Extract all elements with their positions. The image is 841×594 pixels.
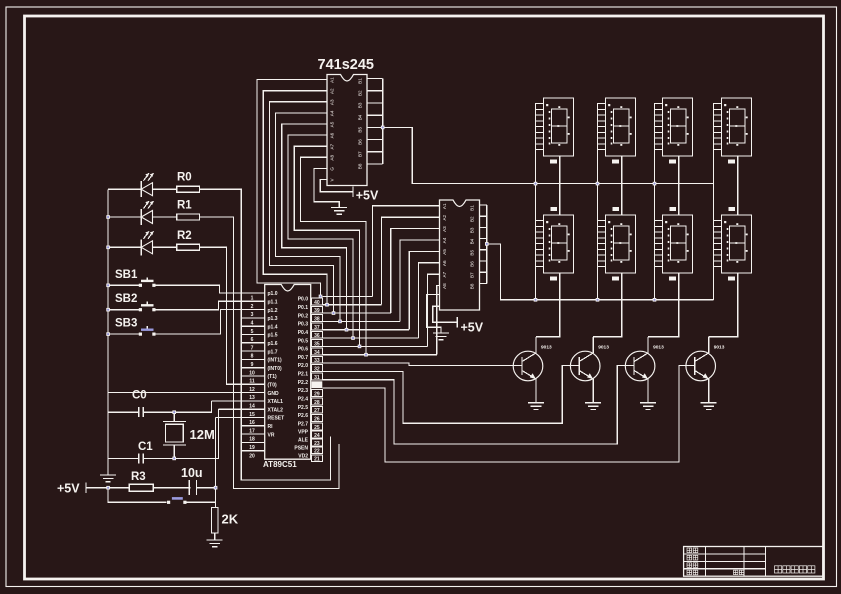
svg-text:17: 17 <box>249 428 255 434</box>
svg-text:P2.4: P2.4 <box>298 397 309 403</box>
svg-text:(T1): (T1) <box>268 374 278 380</box>
svg-text:A1: A1 <box>330 77 335 83</box>
svg-text:10: 10 <box>249 370 255 376</box>
svg-text:VPP: VPP <box>298 430 309 436</box>
svg-text:p1.0: p1.0 <box>268 291 278 297</box>
svg-text:B2: B2 <box>470 216 475 222</box>
svg-text:1: 1 <box>251 296 254 302</box>
svg-text:9: 9 <box>251 362 254 368</box>
svg-text:36: 36 <box>314 333 320 339</box>
svg-text:40: 40 <box>314 300 320 306</box>
svg-text:VD2: VD2 <box>298 453 308 459</box>
svg-text:P2.3: P2.3 <box>298 388 309 394</box>
svg-text:B1: B1 <box>470 205 475 211</box>
svg-text:C1: C1 <box>138 441 153 453</box>
svg-text:20: 20 <box>249 453 255 459</box>
svg-text:P0.0: P0.0 <box>298 297 309 303</box>
svg-text:B2: B2 <box>358 90 363 96</box>
svg-text:p1.5: p1.5 <box>268 333 278 339</box>
svg-text:9013: 9013 <box>541 345 552 351</box>
svg-text:33: 33 <box>314 358 320 364</box>
svg-text:B8: B8 <box>470 283 475 289</box>
svg-text:VR: VR <box>268 432 275 438</box>
svg-text:GND: GND <box>268 391 280 397</box>
svg-text:3: 3 <box>251 312 254 318</box>
svg-text:A8: A8 <box>330 155 335 161</box>
svg-text:10u: 10u <box>181 466 203 480</box>
svg-text:P0.1: P0.1 <box>298 305 309 311</box>
svg-text:23: 23 <box>314 441 320 447</box>
svg-text:39: 39 <box>314 308 320 314</box>
svg-text:XTAL2: XTAL2 <box>268 407 284 413</box>
svg-text:28: 28 <box>314 400 320 406</box>
svg-text:B3: B3 <box>358 102 363 108</box>
svg-text:XTAL1: XTAL1 <box>268 399 284 405</box>
svg-text:P0.7: P0.7 <box>298 355 309 361</box>
svg-text:ALE: ALE <box>298 438 309 444</box>
svg-text:B6: B6 <box>358 139 363 145</box>
svg-text:21: 21 <box>314 457 320 463</box>
svg-text:B6: B6 <box>470 261 475 267</box>
svg-text:P0.5: P0.5 <box>298 338 309 344</box>
svg-text:(T0): (T0) <box>268 383 278 389</box>
svg-text:P2.1: P2.1 <box>298 372 309 378</box>
svg-text:13: 13 <box>249 395 255 401</box>
svg-text:P2.6: P2.6 <box>298 413 309 419</box>
svg-text:p1.1: p1.1 <box>268 300 278 306</box>
svg-text:38: 38 <box>314 316 320 322</box>
svg-text:A8: A8 <box>442 283 447 289</box>
svg-text:RESET: RESET <box>268 416 285 422</box>
svg-text:9013: 9013 <box>653 345 664 351</box>
svg-text:35: 35 <box>314 341 320 347</box>
svg-text:C0: C0 <box>132 390 147 402</box>
svg-text:AT89C51: AT89C51 <box>263 460 297 469</box>
svg-text:PSEN: PSEN <box>294 446 308 452</box>
svg-text:A7: A7 <box>330 143 335 149</box>
svg-text:P2.2: P2.2 <box>298 380 309 386</box>
svg-text:B4: B4 <box>358 114 363 120</box>
svg-text:+5V: +5V <box>57 482 80 496</box>
svg-text:18: 18 <box>249 437 255 443</box>
svg-text:24: 24 <box>314 433 320 439</box>
svg-text:27: 27 <box>314 408 320 414</box>
svg-text:25: 25 <box>314 425 320 431</box>
svg-text:B8: B8 <box>358 163 363 169</box>
svg-text:12: 12 <box>249 387 255 393</box>
svg-text:22: 22 <box>314 449 320 455</box>
svg-text:(INT1): (INT1) <box>268 358 283 364</box>
svg-text:A4: A4 <box>442 237 447 243</box>
svg-text:A5: A5 <box>330 121 335 127</box>
svg-text:34: 34 <box>314 350 320 356</box>
svg-text:A2: A2 <box>442 214 447 220</box>
svg-text:9013: 9013 <box>598 345 609 351</box>
svg-text:16: 16 <box>249 420 255 426</box>
svg-text:SB2: SB2 <box>115 293 137 305</box>
svg-text:29: 29 <box>314 391 320 397</box>
svg-text:A4: A4 <box>330 110 335 116</box>
svg-text:A1: A1 <box>442 203 447 209</box>
svg-text:B7: B7 <box>470 272 475 278</box>
svg-text:P0.3: P0.3 <box>298 322 309 328</box>
svg-text:+5V: +5V <box>461 321 484 335</box>
svg-text:8: 8 <box>251 354 254 360</box>
svg-text:P2.7: P2.7 <box>298 422 309 428</box>
svg-text:p1.7: p1.7 <box>268 349 278 355</box>
svg-text:19: 19 <box>249 445 255 451</box>
svg-text:A6: A6 <box>330 132 335 138</box>
svg-text:5: 5 <box>251 329 254 335</box>
svg-text:p1.4: p1.4 <box>268 324 278 330</box>
svg-text:7: 7 <box>251 345 254 351</box>
svg-text:B1: B1 <box>358 78 363 84</box>
svg-text:p1.6: p1.6 <box>268 341 278 347</box>
svg-text:A7: A7 <box>442 271 447 277</box>
svg-text:37: 37 <box>314 325 320 331</box>
svg-text:R3: R3 <box>131 471 146 483</box>
svg-text:P0.6: P0.6 <box>298 347 309 353</box>
svg-text:P0.4: P0.4 <box>298 330 309 336</box>
svg-text:741s245: 741s245 <box>318 57 374 73</box>
svg-text:31: 31 <box>314 375 320 381</box>
svg-text:P0.2: P0.2 <box>298 313 309 319</box>
svg-text:4: 4 <box>251 321 254 327</box>
svg-text:p1.3: p1.3 <box>268 316 278 322</box>
svg-text:A3: A3 <box>330 99 335 105</box>
svg-text:R2: R2 <box>177 230 192 242</box>
svg-text:A2: A2 <box>330 88 335 94</box>
svg-text:R0: R0 <box>177 172 192 184</box>
svg-text:B3: B3 <box>470 227 475 233</box>
svg-text:9013: 9013 <box>714 345 725 351</box>
svg-text:12M: 12M <box>190 427 215 442</box>
svg-text:26: 26 <box>314 416 320 422</box>
svg-text:P2.0: P2.0 <box>298 363 309 369</box>
svg-text:A3: A3 <box>442 226 447 232</box>
svg-text:B4: B4 <box>470 238 475 244</box>
svg-text:B5: B5 <box>470 250 475 256</box>
svg-text:P2.5: P2.5 <box>298 405 309 411</box>
svg-text:2K: 2K <box>222 512 239 527</box>
svg-text:32: 32 <box>314 366 320 372</box>
svg-text:B7: B7 <box>358 151 363 157</box>
svg-text:A5: A5 <box>442 249 447 255</box>
svg-text:2: 2 <box>251 304 254 310</box>
svg-text:15: 15 <box>249 412 255 418</box>
svg-text:(INT0): (INT0) <box>268 366 283 372</box>
svg-text:+5V: +5V <box>356 189 379 203</box>
svg-text:G: G <box>330 167 335 171</box>
svg-text:RI: RI <box>268 424 274 430</box>
svg-text:6: 6 <box>251 337 254 343</box>
svg-text:B5: B5 <box>358 127 363 133</box>
svg-text:A6: A6 <box>442 260 447 266</box>
svg-text:SB1: SB1 <box>115 269 138 281</box>
svg-text:14: 14 <box>249 404 255 410</box>
svg-text:p1.2: p1.2 <box>268 308 278 314</box>
svg-text:R1: R1 <box>177 200 192 212</box>
svg-text:11: 11 <box>249 379 255 385</box>
svg-text:SB3: SB3 <box>115 318 137 330</box>
